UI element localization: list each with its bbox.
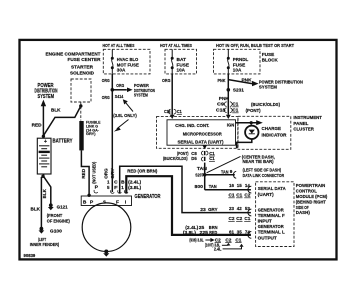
svg-text:(PONT): (PONT) xyxy=(246,108,261,113)
(936) 3.8L row with connector refs xyxy=(189,237,242,242)
svg-text:(FRONT: (FRONT xyxy=(47,213,63,218)
svg-text:(BUICK/OLDS): (BUICK/OLDS) xyxy=(163,156,188,161)
svg-text:C1: C1 xyxy=(236,193,243,198)
svg-text:BATTERY: BATTERY xyxy=(53,139,74,145)
svg-text:42: 42 xyxy=(237,206,242,211)
svg-text:23: 23 xyxy=(200,207,206,212)
fuse block (PRNDL) dashed box xyxy=(214,49,261,74)
splice S207 xyxy=(203,173,207,177)
female pin arcs at generator connector xyxy=(111,190,115,193)
svg-text:PNK: PNK xyxy=(218,78,227,83)
splice S414 xyxy=(111,88,115,92)
svg-text:C1: C1 xyxy=(244,216,251,221)
svg-text:35: 35 xyxy=(237,230,242,235)
svg-text:GRY): GRY) xyxy=(86,131,96,136)
wire ORG from HVAC fuse down to S414 and generator S xyxy=(111,74,113,192)
charge indicator lamp xyxy=(245,126,258,139)
svg-text:16: 16 xyxy=(229,183,234,188)
svg-text:F: F xyxy=(114,185,118,190)
svg-text:RED: RED xyxy=(32,123,43,128)
svg-text:RED: RED xyxy=(81,168,86,179)
fuse HVAC BLO MOT 30A xyxy=(111,49,139,74)
svg-text:10A: 10A xyxy=(177,67,186,72)
svg-text:ORG: ORG xyxy=(116,83,124,88)
svg-text:(NOT USED): (NOT USED) xyxy=(92,161,97,183)
svg-text:PANEL: PANEL xyxy=(293,121,308,126)
fusible link G xyxy=(79,121,83,150)
svg-text:BLK: BLK xyxy=(31,207,41,212)
svg-text:53: 53 xyxy=(245,206,250,211)
svg-text:TAN: TAN xyxy=(209,184,217,189)
svg-text:(3.8L): (3.8L) xyxy=(183,230,197,235)
svg-text:(3.8L ONLY): (3.8L ONLY) xyxy=(113,113,137,118)
wire RED vertical to battery xyxy=(42,106,44,136)
instrument panel cluster dashed box xyxy=(238,116,291,149)
svg-text:TAN: TAN xyxy=(197,166,207,171)
svg-text:HOT IN OFF, RUN, BULB TEST OR: HOT IN OFF, RUN, BULB TEST OR START xyxy=(216,43,294,48)
connector C9/C1 (BUICK/OLDS) xyxy=(217,102,280,108)
svg-text:23: 23 xyxy=(229,206,234,211)
branch wire PNK to power distribution xyxy=(228,80,252,84)
engine compartment fuse center dashed box xyxy=(103,49,150,74)
svg-text:90839: 90839 xyxy=(24,253,36,258)
svg-text:TAN: TAN xyxy=(221,169,229,174)
svg-text:C8: C8 xyxy=(191,151,197,156)
svg-text:HOT AT ALL TIMES: HOT AT ALL TIMES xyxy=(103,43,135,48)
svg-text:OF ENGINE): OF ENGINE) xyxy=(47,219,70,224)
wire BLK battery negative to G100 xyxy=(40,177,42,227)
(100T) 3.8L bent arrow xyxy=(205,242,231,247)
svg-text:PNK: PNK xyxy=(219,96,230,101)
connector C8/C1 (PONT) xyxy=(177,151,215,156)
svg-text:C1: C1 xyxy=(177,109,182,114)
svg-text:(3.8L): (3.8L) xyxy=(128,185,142,190)
svg-text:CLUSTER: CLUSTER xyxy=(293,126,314,131)
svg-text:POWERTRAIN: POWERTRAIN xyxy=(296,183,326,188)
svg-text:C1: C1 xyxy=(232,108,239,113)
svg-text:GENERATOR: GENERATOR xyxy=(258,207,285,212)
wire TAN microprocessor to S207 xyxy=(202,145,207,149)
svg-text:SYSTEM: SYSTEM xyxy=(134,92,148,97)
svg-text:C2: C2 xyxy=(244,193,251,198)
svg-text:800: 800 xyxy=(195,184,204,189)
generator G1 body xyxy=(82,203,131,252)
svg-text:D5: D5 xyxy=(191,156,197,161)
svg-text:C1: C1 xyxy=(209,151,215,156)
wire charge indicator return xyxy=(237,139,252,148)
connector D5/C1 (BUICK/OLDS) xyxy=(163,156,215,161)
microprocessor outer dashed box xyxy=(157,117,238,149)
svg-text:S207: S207 xyxy=(195,173,204,178)
splice S231 xyxy=(227,88,231,92)
svg-text:HOT AT ALL TIMES: HOT AT ALL TIMES xyxy=(160,43,192,48)
svg-text:+: + xyxy=(44,139,47,145)
svg-text:IGN: IGN xyxy=(227,122,235,127)
svg-text:CONTROL: CONTROL xyxy=(296,188,317,193)
svg-text:P: P xyxy=(90,199,94,204)
svg-text:P: P xyxy=(95,185,99,190)
svg-text:(UART): (UART) xyxy=(258,192,275,197)
svg-text:2.4L: 2.4L xyxy=(214,246,222,251)
svg-text:C2: C2 xyxy=(229,216,236,221)
svg-text:S231: S231 xyxy=(233,88,245,93)
svg-text:MICROPROCESSOR: MICROPROCESSOR xyxy=(183,131,223,136)
svg-text:225: 225 xyxy=(200,230,209,235)
svg-text:INPUT: INPUT xyxy=(258,218,272,223)
svg-text:F: F xyxy=(116,199,119,204)
ground G121 xyxy=(48,203,54,210)
svg-text:15: 15 xyxy=(237,183,242,188)
svg-text:CHARGE: CHARGE xyxy=(262,126,282,131)
generator connector box xyxy=(81,196,131,206)
svg-text:(BUICK/OLDS): (BUICK/OLDS) xyxy=(251,102,280,107)
svg-text:GENERATOR: GENERATOR xyxy=(258,224,285,229)
svg-text:S414: S414 xyxy=(115,94,124,99)
node generator B terminal xyxy=(87,194,90,197)
svg-text:I: I xyxy=(125,199,127,204)
svg-text:INDICATOR: INDICATOR xyxy=(262,132,288,137)
svg-text:ENGINE COMPARTMENT: ENGINE COMPARTMENT xyxy=(46,51,101,56)
svg-text:(936) 3.8L: (936) 3.8L xyxy=(189,237,203,242)
svg-text:61: 61 xyxy=(229,230,234,235)
microprocessor U1 inner box xyxy=(167,120,236,145)
svg-text:ORG: ORG xyxy=(102,95,110,100)
battery xyxy=(37,138,51,174)
svg-text:SOLENOID: SOLENOID xyxy=(70,71,95,76)
svg-text:SERIAL DATA: SERIAL DATA xyxy=(258,186,287,191)
wire BLK branch to G121 xyxy=(44,177,51,204)
node battery negative xyxy=(41,175,44,178)
svg-text:CHG. IND. CONT.: CHG. IND. CONT. xyxy=(175,123,209,128)
wire GRY generator F to PCM xyxy=(120,166,251,212)
svg-text:TERMINAL F: TERMINAL F xyxy=(258,213,285,218)
svg-text:C2: C2 xyxy=(236,216,243,221)
wire TAN 800 row to PCM xyxy=(205,189,251,191)
generator case ground xyxy=(103,250,109,257)
wire TAN 9 to data link connector xyxy=(205,174,235,176)
connector C18/C1 (PONT) xyxy=(216,108,261,114)
svg-text:NEAR TIE BAR): NEAR TIE BAR) xyxy=(243,159,274,164)
ground G100 xyxy=(39,227,45,234)
fuse BAT 10A xyxy=(171,49,189,74)
svg-text:C1: C1 xyxy=(232,102,239,107)
svg-text:(2.4L): (2.4L) xyxy=(128,179,142,184)
svg-text:STARTER: STARTER xyxy=(71,65,94,70)
svg-text:DASH): DASH) xyxy=(296,210,310,215)
svg-text:14: 14 xyxy=(245,183,250,188)
svg-text:SYSTEM: SYSTEM xyxy=(259,85,277,90)
powertrain control module dashed box xyxy=(256,182,294,247)
svg-text:ORG: ORG xyxy=(162,78,171,83)
svg-text:C2: C2 xyxy=(225,237,232,242)
svg-text:10A: 10A xyxy=(233,67,242,72)
branch wire ORG to power distribution xyxy=(112,89,127,91)
2.4L bent arrow xyxy=(214,244,244,252)
svg-text:GRY: GRY xyxy=(110,168,115,179)
fuse PRNDL 10A xyxy=(227,49,249,74)
leader to center dash label xyxy=(207,156,241,172)
wire PNK from PRNDL fuse to S231 and microprocessor IGN xyxy=(227,74,229,115)
svg-text:RED (OR BRN): RED (OR BRN) xyxy=(127,169,157,174)
wire RED fusible link to generator B xyxy=(81,150,89,194)
svg-text:SYSTEM: SYSTEM xyxy=(38,94,55,100)
svg-text:MODULE (PCM): MODULE (PCM) xyxy=(296,194,328,199)
node starter solenoid stud xyxy=(79,104,82,107)
starter solenoid dashed box xyxy=(71,79,91,102)
svg-text:(PONT): (PONT) xyxy=(177,151,189,156)
svg-text:TERMINAL L: TERMINAL L xyxy=(258,230,285,235)
svg-text:BLK: BLK xyxy=(51,107,61,112)
svg-text:C1: C1 xyxy=(209,156,215,161)
svg-text:SERIAL DATA (UART): SERIAL DATA (UART) xyxy=(178,140,224,145)
svg-text:C9: C9 xyxy=(217,102,225,107)
svg-text:INSTRUMENT: INSTRUMENT xyxy=(293,115,322,120)
svg-text:G121: G121 xyxy=(57,204,68,209)
svg-text:DATA LINK CONNECTOR: DATA LINK CONNECTOR xyxy=(243,173,285,178)
svg-text:ORG: ORG xyxy=(103,168,108,179)
arrow up to power distribution (RED wire) xyxy=(41,100,46,107)
wire microprocessor to charge indicator xyxy=(236,122,257,124)
wire RED (OR BRN) generator I to PCM xyxy=(126,176,251,235)
svg-text:GENERATOR: GENERATOR xyxy=(135,194,161,200)
svg-text:BLOCK: BLOCK xyxy=(262,58,279,63)
svg-text:RED: RED xyxy=(209,230,218,235)
svg-text:C1: C1 xyxy=(235,237,242,242)
wire BLK battery to starter solenoid xyxy=(43,106,80,136)
svg-text:GRY: GRY xyxy=(208,207,218,212)
svg-text:G100: G100 xyxy=(50,228,63,233)
svg-text:(LEFT SIDE OF DASH): (LEFT SIDE OF DASH) xyxy=(243,168,282,173)
node battery positive junction xyxy=(42,135,45,138)
svg-text:OUTPUT: OUTPUT xyxy=(258,235,277,240)
svg-text:C1: C1 xyxy=(229,193,236,198)
svg-text:30A: 30A xyxy=(117,67,126,72)
fuse block (BAT) dashed box xyxy=(165,49,197,74)
svg-text:FUSE CENTER: FUSE CENTER xyxy=(68,57,102,62)
connector C16/C1 xyxy=(164,109,182,114)
svg-text:ORG: ORG xyxy=(102,78,110,83)
dashed link solenoid to fusible link xyxy=(80,102,82,121)
svg-text:POWER DISTRIBUTION: POWER DISTRIBUTION xyxy=(259,79,303,84)
svg-text:PNK: PNK xyxy=(242,77,253,82)
svg-text:SIDE OF: SIDE OF xyxy=(296,205,309,210)
wire ORG from BAT fuse down to microprocessor xyxy=(171,74,173,115)
svg-text:FUSE: FUSE xyxy=(262,52,275,57)
svg-text:INNER FENDER): INNER FENDER) xyxy=(30,242,60,247)
svg-text:BLK: BLK xyxy=(42,188,47,198)
svg-text:C16: C16 xyxy=(164,109,171,114)
